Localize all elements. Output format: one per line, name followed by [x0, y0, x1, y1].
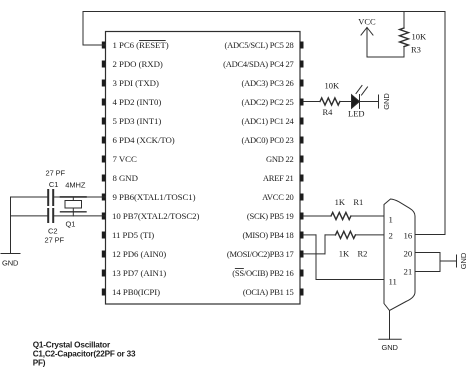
svg-text:(ADC3) PC3 26: (ADC3) PC3 26	[241, 78, 293, 88]
wire bracket to ground bar	[440, 260, 457, 262]
svg-text:(SS/OCIB) PB2 16: (SS/OCIB) PB2 16	[232, 268, 293, 278]
VCC symbol arrow	[361, 28, 373, 58]
wire XTAL1 right segment	[55, 196, 106, 198]
wire R1 to connector pin1	[351, 215, 384, 217]
svg-text:4MHZ: 4MHZ	[65, 181, 86, 190]
ground (crystal)	[1, 253, 20, 255]
wire crystal riser to ground	[10, 197, 12, 254]
connector J1 parallel port shell	[384, 199, 415, 311]
svg-text:GND: GND	[459, 252, 468, 269]
svg-text:16: 16	[404, 231, 413, 241]
wire RESET right drop	[444, 12, 446, 235]
svg-text:(ADC2) PC2 25: (ADC2) PC2 25	[241, 97, 293, 107]
svg-text:20: 20	[404, 249, 413, 259]
svg-text:1K: 1K	[339, 249, 350, 259]
svg-text:6 PD4 (XCK/TO): 6 PD4 (XCK/TO)	[113, 135, 175, 145]
svg-text:GND: GND	[382, 343, 399, 352]
capacitor C1	[48, 190, 53, 205]
svg-text:27 PF: 27 PF	[46, 169, 66, 178]
IC U1 ATmega8 body	[106, 32, 301, 305]
svg-text:C1,C2-Capacitor(22PF or 33: C1,C2-Capacitor(22PF or 33	[33, 350, 136, 359]
svg-text:12 PD6 (AIN0): 12 PD6 (AIN0)	[112, 249, 166, 259]
wire pin18 stub	[304, 234, 317, 236]
svg-text:1: 1	[389, 215, 393, 225]
wire pin25 to R4	[304, 101, 321, 103]
wire MOSI to R2	[325, 234, 336, 236]
svg-text:10 PB7(XTAL2/TOSC2): 10 PB7(XTAL2/TOSC2)	[112, 211, 200, 221]
wire RESET riser left	[82, 12, 84, 46]
resistor R1	[331, 212, 351, 219]
svg-text:21: 21	[404, 267, 413, 277]
resistor R3	[400, 28, 409, 47]
svg-text:AVCC 20: AVCC 20	[262, 192, 293, 202]
svg-text:7 VCC: 7 VCC	[113, 154, 137, 164]
wire RESET pin1 to riser	[83, 44, 106, 46]
svg-text:1K: 1K	[335, 197, 346, 207]
svg-text:4 PD2 (INT0): 4 PD2 (INT0)	[113, 97, 162, 107]
wire gnd bracket vertical	[439, 253, 441, 272]
LED diode	[352, 86, 368, 109]
wire pin19 to R1	[304, 215, 332, 217]
capacitor C2	[48, 209, 53, 222]
note text caption	[33, 341, 136, 368]
svg-text:3 PDI (TXD): 3 PDI (TXD)	[113, 78, 159, 88]
svg-text:11 PD5 (TI): 11 PD5 (TI)	[112, 230, 154, 240]
wire XTAL2 right segment	[55, 215, 106, 217]
wire R3 to VCC arrow	[367, 56, 404, 58]
ground (J1 shell)	[379, 338, 402, 340]
svg-text:9 PB6(XTAL1/TOSC1): 9 PB6(XTAL1/TOSC1)	[113, 192, 196, 202]
svg-text:(ADC5/SCL) PC5 28: (ADC5/SCL) PC5 28	[225, 40, 294, 50]
U1 left pin stubs	[102, 42, 106, 296]
svg-text:5 PD3 (INT1): 5 PD3 (INT1)	[113, 116, 162, 126]
svg-text:10K: 10K	[325, 81, 341, 91]
svg-text:Q1: Q1	[66, 220, 76, 229]
ground bar (LED)	[378, 95, 380, 108]
svg-text:14 PB0(ICPI): 14 PB0(ICPI)	[112, 287, 160, 297]
wire R4 to LED	[340, 101, 352, 103]
svg-text:R4: R4	[323, 107, 334, 117]
svg-text:2 PDO (RXD): 2 PDO (RXD)	[113, 59, 163, 69]
wire RESET top run	[83, 11, 445, 13]
svg-text:C2: C2	[48, 227, 57, 236]
resistor R4	[320, 98, 340, 105]
svg-text:(ADC1) PC1 24: (ADC1) PC1 24	[241, 116, 294, 126]
wire MOSI riser	[324, 235, 326, 254]
wire pin21 stub	[415, 271, 440, 273]
wire pin20 stub	[415, 252, 440, 254]
U1 right pin stubs	[300, 42, 304, 296]
svg-text:Q1-Crystal Oscillator: Q1-Crystal Oscillator	[33, 341, 111, 350]
svg-text:R1: R1	[353, 197, 363, 207]
svg-text:R2: R2	[358, 249, 368, 259]
wire MISO to connector pin11	[316, 279, 384, 281]
wire J1 shell to ground	[389, 311, 391, 340]
svg-text:(OCIA) PB1 15: (OCIA) PB1 15	[243, 287, 294, 297]
svg-text:(ADC4/SDA) PC4 27: (ADC4/SDA) PC4 27	[223, 59, 293, 69]
svg-text:GND: GND	[2, 258, 19, 267]
crystal Q1	[61, 197, 87, 216]
svg-text:(SCK) PB5 19: (SCK) PB5 19	[247, 211, 294, 221]
svg-text:1 PC6 (RESET): 1 PC6 (RESET)	[113, 40, 169, 50]
wire R3 top stub	[403, 12, 405, 29]
wire R2 to connector pin2	[356, 234, 385, 236]
wire R3 bottom stub	[403, 47, 405, 58]
svg-text:GND 22: GND 22	[266, 154, 294, 164]
svg-text:13 PD7 (AIN1): 13 PD7 (AIN1)	[112, 268, 166, 278]
svg-text:GND: GND	[382, 93, 391, 110]
svg-text:PF): PF)	[33, 359, 46, 368]
svg-text:2: 2	[389, 231, 393, 241]
svg-text:27 PF: 27 PF	[45, 236, 65, 245]
wire MISO drop	[315, 235, 317, 280]
wire connector pin16 stub	[415, 234, 445, 236]
svg-text:R3: R3	[411, 45, 421, 55]
svg-text:8 GND: 8 GND	[113, 173, 138, 183]
svg-text:(ADC0) PC0 23: (ADC0) PC0 23	[241, 135, 293, 145]
svg-text:VCC: VCC	[358, 17, 376, 27]
wire XTAL2 left segment	[11, 215, 48, 217]
svg-text:C1: C1	[49, 180, 58, 189]
svg-text:AREF 21: AREF 21	[263, 173, 294, 183]
resistor R2	[336, 231, 356, 238]
wire pin17 stub	[304, 253, 326, 255]
svg-text:10K: 10K	[412, 32, 428, 42]
wire XTAL1 left segment	[11, 196, 48, 198]
svg-text:(MOSI/OC2)PB3 17: (MOSI/OC2)PB3 17	[227, 249, 294, 259]
wire LED to ground bar	[360, 101, 379, 103]
svg-text:11: 11	[389, 277, 397, 287]
ground bar (J1 pins 20/21)	[456, 255, 458, 267]
svg-text:LED: LED	[348, 109, 365, 119]
svg-text:(MISO) PB4 18: (MISO) PB4 18	[242, 230, 293, 240]
